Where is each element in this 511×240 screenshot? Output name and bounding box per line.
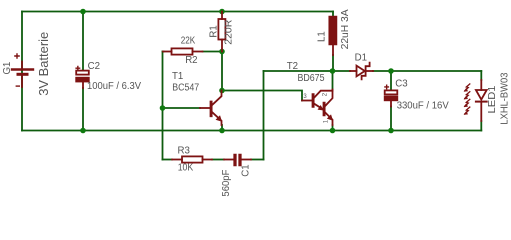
svg-text:22K: 22K [181,35,196,46]
svg-text:560pF: 560pF [221,170,232,197]
svg-text:LXHL-BW03: LXHL-BW03 [499,73,510,125]
svg-text:T2: T2 [287,61,298,72]
svg-text:D1: D1 [355,52,367,63]
svg-text:C3: C3 [395,79,407,90]
svg-text:R1: R1 [208,25,219,37]
svg-text:BC547: BC547 [172,83,199,94]
svg-text:220R: 220R [224,20,235,45]
svg-text:BD675: BD675 [298,73,325,84]
svg-text:R2: R2 [185,55,197,66]
svg-text:10K: 10K [178,163,194,174]
svg-text:100uF / 6.3V: 100uF / 6.3V [87,81,142,92]
svg-text:22uH 3A: 22uH 3A [340,9,351,50]
svg-text:T1: T1 [172,71,183,82]
svg-text:R3: R3 [178,146,190,157]
svg-text:L1: L1 [316,31,327,42]
svg-text:2: 2 [323,92,329,96]
svg-text:G1: G1 [2,62,13,75]
svg-text:3: 3 [303,94,307,100]
svg-text:C1: C1 [241,164,252,176]
svg-text:LED1: LED1 [487,86,498,114]
svg-text:330uF / 16V: 330uF / 16V [397,100,450,111]
svg-text:3V Batterie: 3V Batterie [37,32,51,96]
svg-text:1: 1 [324,119,330,123]
svg-text:C2: C2 [88,61,100,72]
